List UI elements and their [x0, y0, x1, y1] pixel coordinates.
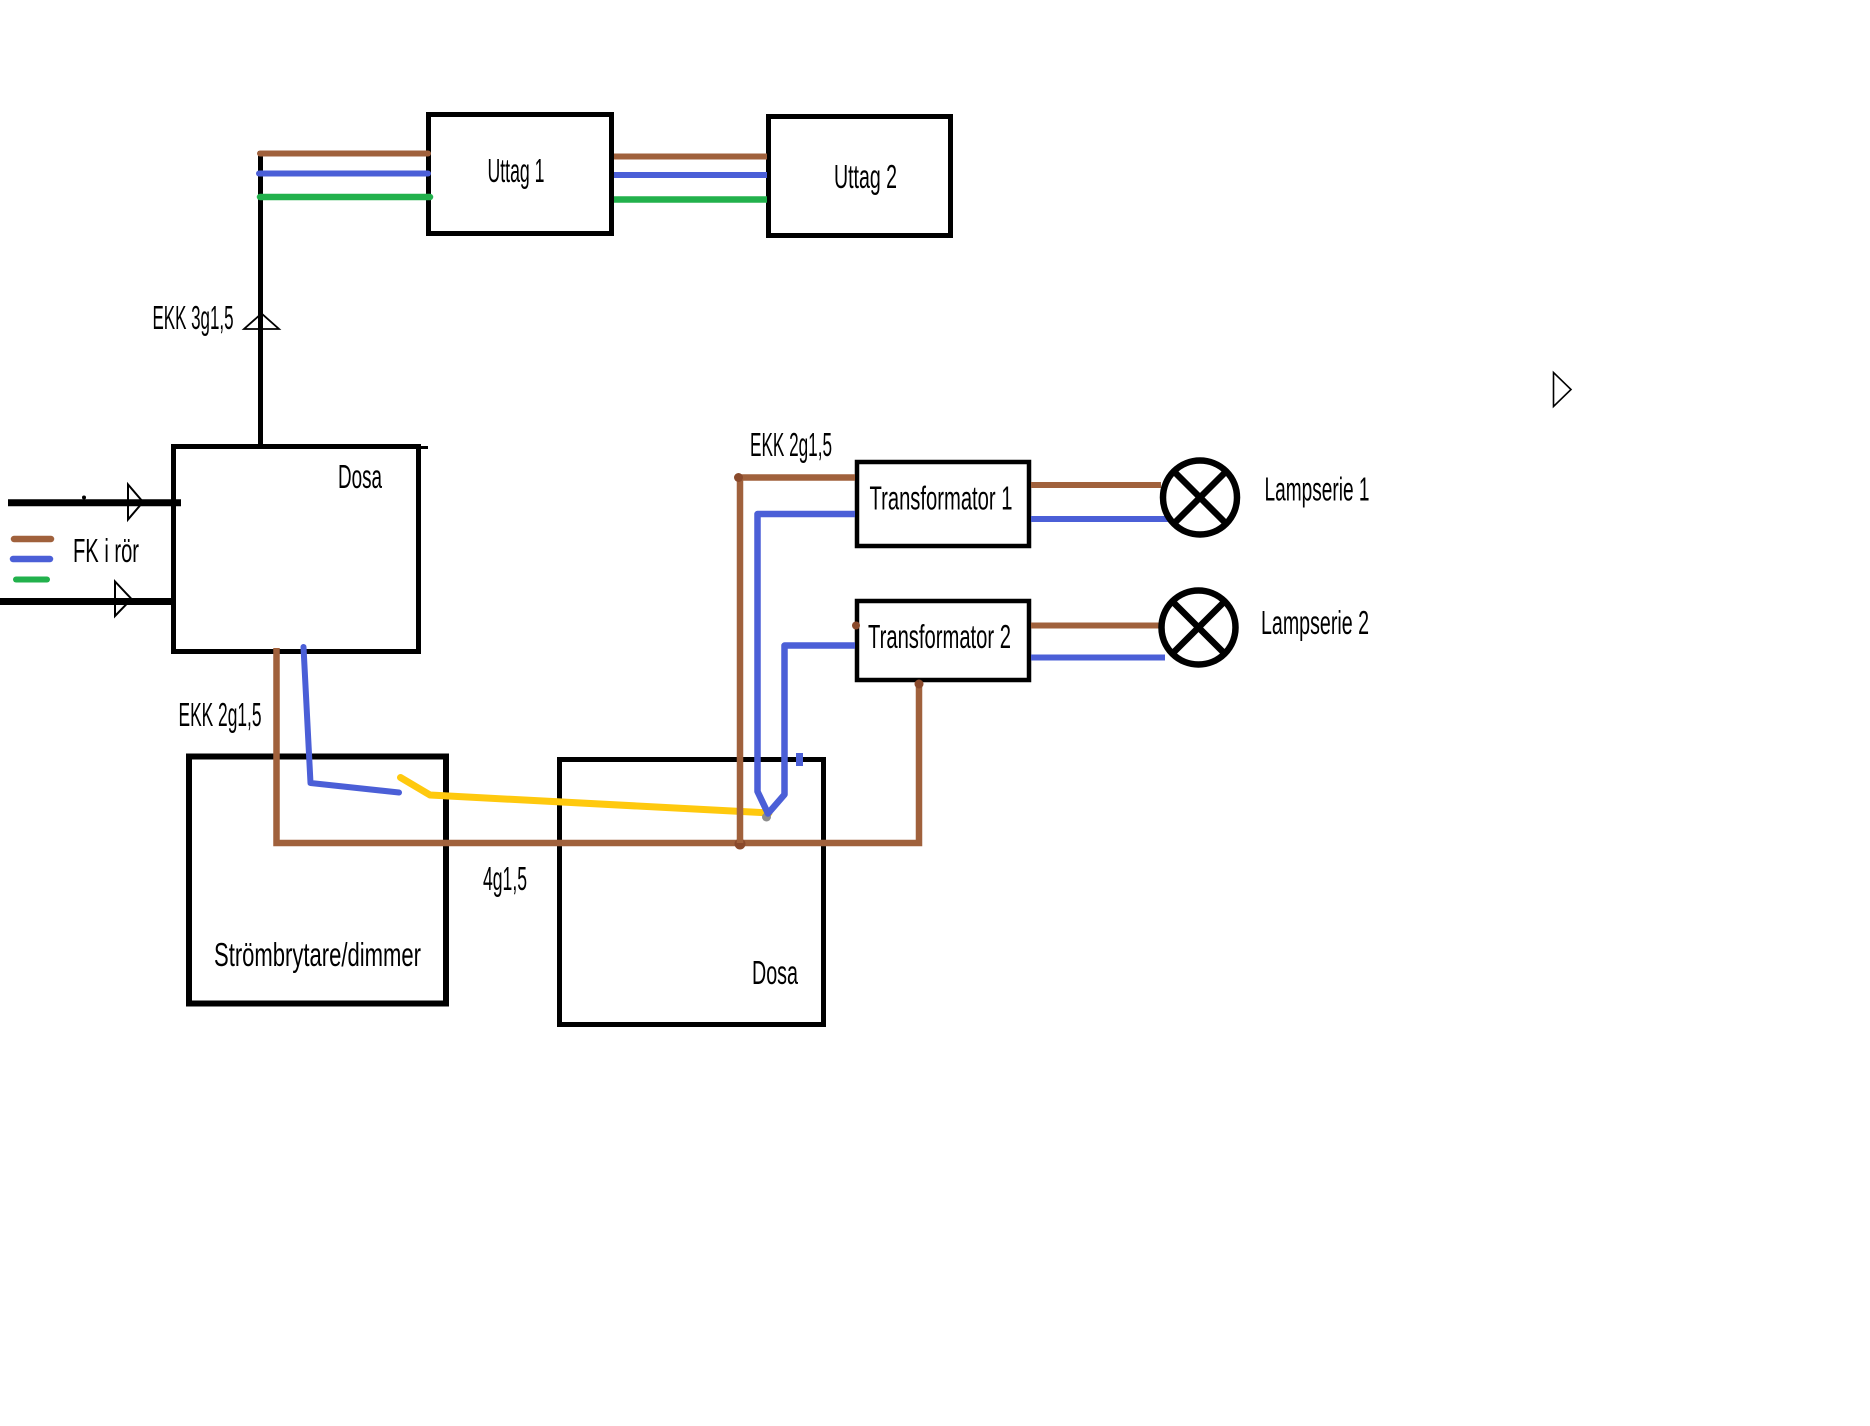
- wire brown feed (riser to Transformator 1): [740, 478, 855, 844]
- stray triangle marker right side: [1554, 373, 1572, 407]
- box Transformator 1: [857, 462, 1029, 546]
- box Uttag 1: [429, 115, 612, 234]
- wire blue neutral (riser to Uttag 1): [259, 171, 428, 177]
- arrowhead on lower feed: [115, 582, 132, 617]
- svg-text:Transformator 1: Transformator 1: [870, 480, 1013, 517]
- wire brown phase (riser to Uttag 1): [260, 151, 428, 157]
- wire yellow switched conductor (Strombrytare to lower Dosa): [401, 778, 770, 814]
- wire brown phase (Uttag 1 to Uttag 2): [614, 154, 767, 160]
- wire brown (Transformator 1 to Lampserie 1): [1031, 482, 1161, 488]
- wire green earth (Uttag 1 to Uttag 2): [614, 196, 767, 203]
- connection dot at Transformator 2 bottom: [915, 680, 924, 689]
- legend green FK line: [16, 577, 47, 583]
- arrowhead on upper feed: [128, 485, 143, 520]
- svg-text:Uttag 1: Uttag 1: [488, 152, 545, 189]
- svg-text:4g1,5: 4g1,5: [483, 860, 527, 897]
- lamp symbol Lampserie 2: [1162, 591, 1236, 665]
- svg-text:Transformator 2: Transformator 2: [868, 618, 1011, 655]
- svg-text:FK i rör: FK i rör: [73, 532, 139, 569]
- dot at brown riser start: [734, 473, 743, 482]
- svg-text:EKK 2g1,5: EKK 2g1,5: [179, 696, 262, 733]
- blue mark on lower Dosa top edge: [796, 753, 803, 766]
- svg-text:Dosa: Dosa: [752, 954, 798, 991]
- svg-text:Uttag 2: Uttag 2: [834, 158, 897, 195]
- wire brown (Transformator 2 to Lampserie 2): [1031, 623, 1159, 629]
- wire black feed lower (into Dosa): [0, 598, 171, 605]
- wire blue (Transformator 2 to Lampserie 2): [1031, 655, 1165, 661]
- svg-text:EKK 3g1,5: EKK 3g1,5: [153, 299, 234, 336]
- lamp symbol Lampserie 1: [1163, 461, 1237, 535]
- arrow on EKK 3g1,5 riser: [244, 314, 279, 330]
- wire green earth (riser to Uttag 1): [260, 194, 430, 201]
- wire black vertical EKK 3g1,5 riser: [258, 151, 263, 449]
- box Transformator 2: [857, 601, 1029, 680]
- box Dosa (upper junction box): [174, 447, 419, 652]
- wire blue (Transformator 1 to Lampserie 1): [1031, 516, 1169, 522]
- box Dosa (lower junction box): [560, 760, 824, 1025]
- junction dot brown: [735, 839, 746, 850]
- svg-text:Dosa: Dosa: [338, 458, 382, 495]
- wire brown switched phase (Dosa down to junction): [277, 648, 920, 843]
- svg-text:Lampserie 2: Lampserie 2: [1261, 604, 1369, 641]
- wire blue loop (Transformator 1 and 2 down to lower Dosa): [758, 514, 856, 814]
- wire black feed upper (into Dosa): [8, 499, 181, 506]
- dot at Transformator 2 brown terminal: [852, 622, 860, 630]
- legend blue FK line: [13, 556, 50, 563]
- wire blue (Dosa down into Strombrytare): [304, 647, 400, 793]
- legend brown FK line: [14, 536, 51, 543]
- tick at Dosa top-right corner: [420, 446, 428, 449]
- svg-text:Strömbrytare/dimmer: Strömbrytare/dimmer: [214, 936, 421, 973]
- grey dot at yellow wire end: [762, 813, 771, 822]
- svg-text:Lampserie 1: Lampserie 1: [1265, 471, 1370, 508]
- box Strombrytare/dimmer: [189, 757, 446, 1004]
- wire blue neutral (Uttag 1 to Uttag 2): [614, 172, 767, 178]
- svg-text:EKK 2g1,5: EKK 2g1,5: [750, 426, 832, 463]
- box Uttag 2: [769, 117, 951, 236]
- stray dot above feed wire: [82, 496, 86, 500]
